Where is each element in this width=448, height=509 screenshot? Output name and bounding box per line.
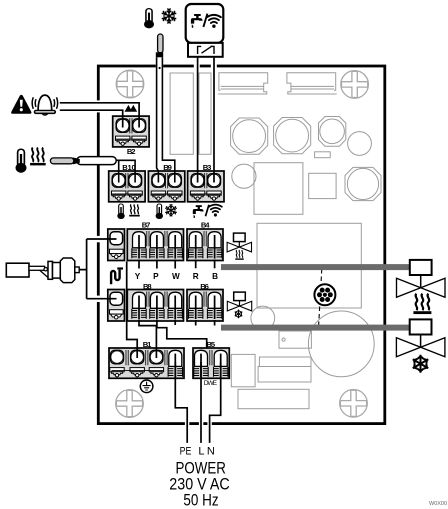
wire B8 stub 3: [174, 320, 176, 326]
wifi icon in box: [207, 15, 221, 28]
svg-text:B9: B9: [163, 163, 172, 172]
connector L2 flow switch input 2: [108, 290, 125, 322]
wire B6 stub 1: [195, 320, 197, 326]
svg-text:L: L: [198, 446, 204, 458]
svg-text:PE: PE: [180, 446, 192, 458]
screw top-right: [341, 71, 369, 99]
flow switch device: [6, 258, 79, 283]
silkscreen rect B: [199, 73, 211, 154]
heat icon under B10: [129, 204, 140, 216]
faucet icon in box: [191, 14, 203, 28]
contact box device: [186, 4, 224, 57]
wire flow switch split to L1 and L2: [79, 239, 116, 299]
connector L1 flow switch input 1: [108, 229, 125, 261]
connector B7: [127, 229, 183, 261]
capacitor C1 octagon: [231, 118, 268, 154]
transformer block: [257, 223, 361, 308]
screw bottom-right: [340, 390, 368, 418]
heat icon under heating valve: [413, 294, 431, 314]
wire B8 terminal 2 to B5 area: [157, 320, 207, 348]
svg-text:B4: B4: [201, 221, 210, 230]
svg-text:50 Hz: 50 Hz: [183, 491, 218, 509]
wire left connector to B1 terminal 2: [127, 262, 138, 359]
big capacitor circle G: [308, 311, 374, 377]
snowflake icon under on-board valve 2: [234, 309, 243, 318]
connector B4: [187, 229, 223, 261]
cooling pipe to valve: [221, 325, 410, 331]
pump symbol: [314, 284, 335, 305]
border gap at PE L N wires: [185, 421, 189, 426]
svg-text:B6: B6: [200, 282, 209, 291]
screw top-left: [116, 70, 144, 98]
wire B3 terminal 1 to contact box: [197, 57, 199, 183]
connector B9: [148, 171, 184, 202]
wire probe to B10 terminals: [116, 160, 136, 182]
bell icon: [32, 95, 58, 115]
rect right of B5: [231, 354, 255, 386]
stacked rect 1: [259, 357, 311, 367]
heat icon left: [30, 148, 46, 166]
rect with dot: [279, 331, 311, 348]
heat sensor probe (horizontal): [50, 157, 116, 165]
svg-text:B10: B10: [122, 163, 135, 172]
slash under B3: [206, 205, 209, 216]
connector B10: [109, 171, 145, 202]
thermometer icon under B9: [156, 204, 163, 219]
on-board valve 2: [227, 292, 251, 311]
svg-text:B1: B1: [143, 340, 152, 349]
svg-text:Y: Y: [135, 272, 141, 281]
border gap at B3 wires: [194, 64, 200, 69]
capacitor C5 octagon: [345, 167, 381, 200]
small rect component: [315, 152, 331, 158]
capacitor C4 circle: [348, 132, 372, 156]
heating pipe to valve: [221, 264, 410, 270]
connector B8: [127, 290, 183, 322]
svg-text:N: N: [207, 446, 215, 458]
svg-text:W0X00: W0X00: [429, 501, 447, 507]
connector B5: [193, 348, 229, 378]
wire B7 stub W: [174, 260, 176, 269]
alarm output icon above B2: [125, 106, 136, 112]
stacked rect 2: [258, 367, 311, 383]
wifi icon under B3: [209, 205, 222, 217]
svg-text:W: W: [172, 272, 180, 281]
svg-text:DWE: DWE: [204, 380, 218, 387]
connector B6: [187, 290, 223, 322]
small circle F: [251, 306, 275, 330]
thermometer icon top: [144, 9, 154, 29]
controller board outline: [98, 66, 385, 424]
wire B7 stub P: [156, 260, 158, 269]
capacitor C3 octagon: [319, 117, 346, 147]
svg-text:B8: B8: [143, 282, 152, 291]
wire B4 stub B: [214, 260, 216, 269]
wire B7 stub Y: [138, 260, 140, 269]
wire PE from B1 terminal 4: [175, 362, 187, 443]
snowflake icon under B9: [165, 204, 177, 216]
wire: alarm line 2 to B2 left terminal: [60, 110, 123, 127]
border gap at flow switch wire 2: [96, 296, 101, 302]
relay K1 footprint: [218, 73, 268, 94]
heat icon under on-board valve 1: [235, 250, 244, 260]
slash in box: [203, 14, 207, 27]
wire B3 terminal 2 to contact box: [213, 57, 215, 183]
snowflake icon under cooling valve: [411, 355, 429, 373]
flow symbol: [111, 269, 123, 285]
wire probe to B9 terminal 1: [157, 161, 159, 183]
wire L from B5 terminal 1: [200, 362, 202, 443]
svg-text:B5: B5: [207, 340, 216, 349]
mid square component: [309, 173, 336, 198]
wire B4 stub R: [195, 260, 197, 269]
outdoor sensor probe (vertical): [156, 34, 163, 161]
wire N from B5 terminal 2: [210, 362, 221, 443]
connector B2: [113, 116, 149, 147]
capacitor C2 octagon: [274, 118, 311, 154]
wire probe to B9 terminal 2: [162, 160, 174, 182]
svg-text:B2: B2: [127, 147, 136, 156]
silkscreen rect A: [170, 73, 193, 154]
thermometer icon left: [16, 149, 27, 173]
connector B1: [109, 348, 184, 378]
external valve cooling: [396, 319, 445, 356]
snowflake icon top: [161, 9, 176, 24]
big square IC: [254, 163, 303, 215]
svg-text:B3: B3: [203, 163, 212, 172]
thermometer icon under B10: [117, 204, 124, 219]
ground symbol: [140, 380, 153, 393]
external valve heating: [397, 260, 446, 297]
border gap at flow switch wire 1: [96, 236, 101, 242]
wire B8 terminal 1 to B1 terminal 3: [139, 320, 156, 359]
wire B6 stub 2: [214, 320, 216, 326]
svg-text:B7: B7: [142, 221, 151, 230]
warning triangle icon: [11, 95, 31, 114]
border gap at B2 wires: [96, 100, 101, 112]
svg-text:P: P: [153, 272, 159, 281]
connector B3: [188, 171, 224, 202]
screw bottom-left: [116, 390, 144, 418]
faucet icon under B3: [193, 205, 204, 218]
relay K2 footprint: [287, 73, 337, 94]
wire: alarm line 1 to B2 right terminal: [60, 103, 139, 128]
bottom wide rect: [238, 389, 309, 408]
svg-text:R: R: [193, 272, 199, 281]
small circle component: [232, 164, 256, 188]
svg-text:B: B: [212, 272, 218, 281]
on-board valve 1: [227, 233, 251, 252]
dashed line through pump: [319, 269, 322, 326]
